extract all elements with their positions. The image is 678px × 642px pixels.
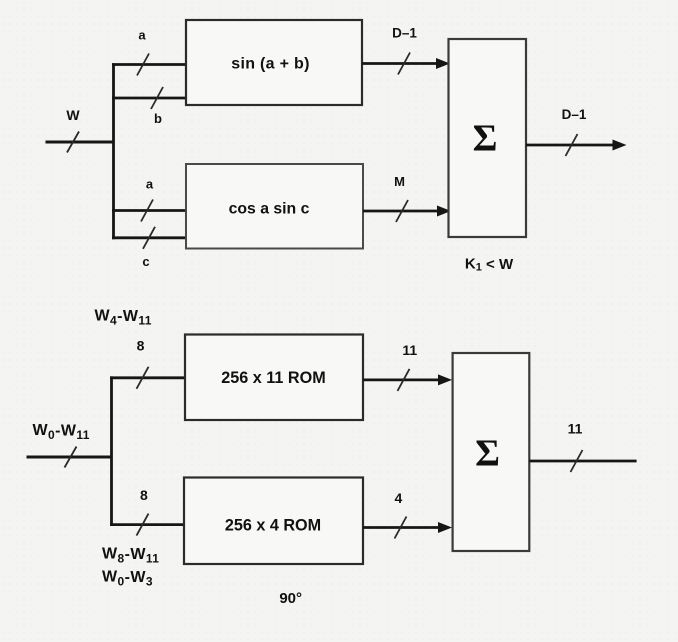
svg-text:Σ: Σ — [475, 433, 500, 475]
wire rom2 output 4 — [363, 522, 452, 533]
slash on sigma2 output — [571, 450, 583, 472]
slash on wire a2 — [141, 200, 153, 222]
label K1 < W — [465, 256, 514, 274]
box 256x11 ROM — [185, 335, 363, 421]
wire c (to cos box) — [112, 236, 186, 239]
svg-text:11: 11 — [568, 421, 583, 437]
bus vertical (top fork) — [112, 63, 115, 239]
label D-1 right — [562, 107, 587, 122]
label c — [142, 254, 149, 269]
svg-text:D–1: D–1 — [392, 26, 417, 41]
label 8 top — [137, 338, 145, 354]
label 8 bottom — [140, 487, 148, 503]
svg-text:cos a sin c: cos a sin c — [229, 201, 310, 218]
svg-text:W: W — [66, 107, 80, 123]
slash on sin output — [398, 53, 410, 75]
svg-text:K1 < W: K1 < W — [465, 256, 514, 274]
svg-text:a: a — [146, 177, 154, 192]
wire a (to sin box) — [112, 63, 186, 66]
svg-text:90°: 90° — [279, 590, 302, 607]
wire cos output M — [363, 206, 451, 217]
label W8-W11 — [102, 545, 159, 565]
wire b (to sin box) — [112, 97, 186, 100]
slash on rom2 wire — [137, 514, 149, 536]
box cos a sin c — [186, 164, 363, 249]
wire rom1 output 11 — [363, 374, 452, 385]
label W — [66, 107, 80, 123]
svg-text:M: M — [394, 174, 405, 189]
label a2 — [146, 177, 154, 192]
label 11 top — [402, 342, 417, 358]
label 90 degrees — [279, 590, 302, 607]
svg-text:8: 8 — [140, 487, 148, 503]
wire sin output D-1 — [362, 58, 450, 69]
svg-text:8: 8 — [137, 338, 145, 354]
label 4 — [395, 490, 403, 506]
svg-text:b: b — [154, 111, 162, 126]
wire W input — [46, 141, 115, 144]
label W4-W11 — [95, 307, 152, 327]
svg-text:Σ: Σ — [473, 118, 498, 160]
svg-text:11: 11 — [402, 342, 417, 358]
wire 8 (to 256x11 ROM) — [110, 376, 185, 379]
slash on rom1 output — [398, 369, 410, 391]
slash on cos output — [396, 200, 408, 222]
slash on sigma1 output — [566, 134, 578, 156]
slash on wire b — [151, 87, 163, 109]
slash on input2 — [65, 447, 77, 468]
adder sigma 2 — [453, 353, 530, 551]
label D-1 top — [392, 26, 417, 41]
label W0-W3 — [102, 568, 153, 588]
label 11 right — [568, 421, 583, 437]
label a — [138, 28, 146, 43]
bus vertical (bottom fork) — [110, 376, 113, 526]
svg-text:sin (a + b): sin (a + b) — [231, 56, 309, 73]
wire a (to cos box) — [112, 209, 186, 212]
slash on rom1 wire — [137, 367, 149, 389]
svg-text:a: a — [138, 28, 146, 43]
label M — [394, 174, 405, 189]
slash on wire c — [143, 227, 155, 249]
svg-text:256 x 11 ROM: 256 x 11 ROM — [221, 369, 325, 387]
svg-text:D–1: D–1 — [562, 107, 587, 122]
wire W0-W11 input — [27, 456, 113, 459]
adder sigma 1 — [449, 39, 527, 237]
label W0-W11 — [33, 422, 90, 442]
slash on W input — [67, 132, 79, 153]
box 256x4 ROM — [184, 478, 363, 565]
slash on rom2 output — [395, 517, 407, 539]
box sin(a+b) — [186, 20, 362, 105]
svg-text:W0-W3: W0-W3 — [102, 568, 153, 588]
label b — [154, 111, 162, 126]
svg-text:c: c — [142, 254, 149, 269]
wire sigma2 output 11 — [529, 460, 636, 463]
svg-text:256 x 4 ROM: 256 x 4 ROM — [225, 517, 321, 535]
svg-text:4: 4 — [395, 490, 403, 506]
wire sigma1 output D-1 — [526, 140, 627, 151]
wire 8 (to 256x4 ROM) — [110, 523, 184, 526]
slash on wire a — [137, 54, 149, 76]
